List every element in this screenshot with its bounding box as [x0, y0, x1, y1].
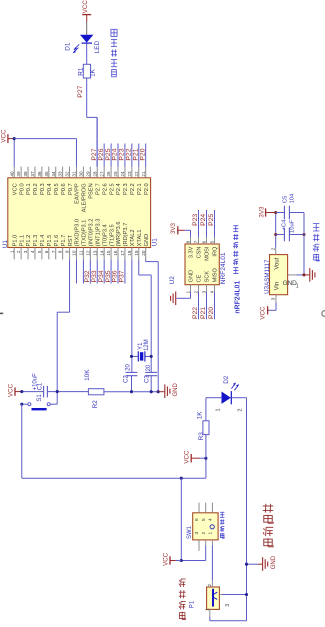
svg-text:LED: LED [94, 40, 101, 53]
ground (U2) [171, 292, 176, 306]
svg-text:P2.6: P2.6 [102, 183, 108, 195]
svg-text:5: 5 [37, 250, 42, 253]
svg-text:3: 3 [194, 531, 200, 534]
svg-text:20: 20 [125, 363, 131, 370]
capacitor C5 [276, 193, 304, 219]
wire SW1 to P1 pin2 [211, 546, 213, 581]
svg-text:CE: CE [197, 274, 203, 282]
connector P1 plug symbol [213, 589, 217, 607]
svg-text:R1: R1 [78, 67, 85, 76]
svg-text:5: 5 [210, 240, 215, 243]
wire C1 to R2 [47, 391, 88, 393]
svg-text:IRQ: IRQ [213, 246, 219, 257]
mcu top pin names VCC..P2.0 [12, 183, 149, 212]
svg-text:P2.7: P2.7 [95, 183, 101, 195]
sheet border tick [0, 312, 3, 314]
svg-text:P1: P1 [190, 600, 196, 608]
svg-text:P20: P20 [139, 148, 146, 160]
capacitor C4 [276, 219, 304, 241]
crystal Y1 [132, 339, 152, 361]
svg-text:P2.5: P2.5 [109, 183, 115, 195]
svg-text:VCC: VCC [82, 0, 89, 13]
svg-text:24: 24 [120, 171, 125, 177]
svg-text:P21: P21 [200, 307, 207, 319]
wire SW1 to VCC node [181, 546, 205, 561]
svg-text:RST: RST [68, 234, 74, 246]
svg-text:P25: P25 [208, 214, 215, 226]
junction S1 vcc node [20, 403, 23, 406]
junction c4 left [274, 233, 277, 236]
connector U2 pin stubs [191, 237, 215, 292]
svg-text:104: 104 [289, 193, 295, 203]
wire VCC to pin40 [13, 139, 15, 167]
svg-text:23: 23 [127, 171, 132, 177]
regulator U3 body [270, 255, 288, 295]
svg-text:36: 36 [37, 171, 42, 177]
junction sw1/vcc [180, 559, 183, 562]
wire U2 SCK [206, 292, 208, 320]
wire pin3 to VCC [268, 302, 276, 310]
regulator U3 designator [264, 285, 271, 293]
svg-text:11: 11 [79, 250, 84, 255]
svg-text:21: 21 [141, 171, 146, 177]
svg-text:1: 1 [296, 284, 299, 290]
svg-text:8: 8 [186, 240, 191, 243]
svg-text:6: 6 [194, 518, 200, 521]
wire R1 to P2.7 pin [87, 78, 97, 167]
LED D2 [215, 375, 243, 411]
svg-text:P1.7: P1.7 [61, 235, 67, 247]
svg-text:VCC: VCC [259, 306, 266, 320]
svg-text:32: 32 [65, 171, 70, 177]
junction C3/gnd [150, 390, 153, 393]
svg-text:12: 12 [85, 250, 90, 256]
label nRF24L01 wireless module [233, 226, 241, 314]
junction p1 pin3 [245, 593, 248, 596]
svg-text:GND: GND [144, 234, 150, 247]
svg-text:NRF24L01: NRF24L01 [220, 252, 227, 284]
mcu top pin stubs (pins 40..21) [14, 167, 145, 178]
wire U2 CE [198, 292, 200, 320]
wire vcc distribution [22, 404, 206, 478]
wire R3 to D2 [206, 398, 222, 421]
svg-text:14: 14 [99, 250, 104, 256]
svg-text:P27: P27 [77, 85, 84, 97]
svg-text:3: 3 [271, 297, 277, 300]
U3 pin1 stub [288, 274, 297, 276]
connector U2 pin numbers [186, 240, 215, 293]
connector P1 stubs [205, 581, 222, 617]
svg-text:37: 37 [30, 171, 35, 177]
wire U2 CSN [198, 210, 200, 237]
switch SW1 pin stubs [199, 503, 212, 551]
capacitor C2 [124, 363, 138, 391]
wire pin1 to rail [297, 274, 304, 276]
wire D2 to gnd rail [232, 398, 247, 621]
power flag VCC (D2 node) [184, 450, 206, 464]
wires P3.0..P3.7 port [76, 259, 124, 283]
svg-text:38: 38 [23, 171, 28, 177]
net labels P32..P37 [84, 270, 126, 282]
svg-text:U1: U1 [151, 238, 158, 247]
svg-text:1: 1 [205, 608, 211, 611]
label ASM1117 [264, 259, 271, 286]
svg-text:4: 4 [208, 518, 214, 521]
svg-text:1: 1 [186, 290, 191, 293]
switch SW1 designator [187, 525, 193, 539]
switch S1 (reset button) [22, 394, 57, 410]
svg-text:C1: C1 [38, 382, 44, 390]
svg-text:7: 7 [194, 240, 199, 243]
label 电源模块 [313, 224, 319, 261]
wire VCC to C1 [22, 391, 44, 393]
U3 pin2 stub [270, 247, 276, 254]
svg-text:2: 2 [201, 531, 207, 534]
svg-text:3: 3 [23, 250, 28, 253]
svg-text:P1.4: P1.4 [40, 235, 46, 247]
svg-text:MOSI: MOSI [205, 246, 211, 261]
svg-text:P0.4: P0.4 [47, 183, 53, 195]
svg-text:ASM1117: ASM1117 [264, 259, 271, 286]
svg-text:MISO: MISO [213, 267, 219, 282]
ground (U3) [304, 268, 315, 282]
label 电源电路 [263, 504, 274, 547]
wire P1 pin1 loop [210, 617, 247, 621]
svg-text:P20: P20 [208, 307, 215, 319]
svg-text:SCK: SCK [205, 271, 211, 283]
svg-text:P1.3: P1.3 [33, 235, 39, 247]
resistor R3 [197, 411, 209, 458]
svg-text:C3: C3 [145, 375, 151, 383]
net label P21 [200, 307, 207, 319]
svg-text:S1: S1 [37, 394, 43, 402]
ground (crystal) [158, 383, 179, 399]
svg-text:25: 25 [113, 171, 118, 177]
svg-text:P0.7: P0.7 [68, 183, 74, 195]
svg-text:R3: R3 [198, 432, 205, 441]
svg-text:(INT0)P3.2: (INT0)P3.2 [89, 219, 95, 247]
svg-text:Vin: Vin [275, 282, 281, 291]
svg-text:P22: P22 [192, 307, 199, 319]
ground (power circuit) [247, 555, 278, 571]
svg-text:VCC: VCC [0, 129, 7, 143]
power flag 3V3 (U2) [170, 222, 185, 234]
svg-text:+C4: +C4 [282, 219, 288, 231]
switch SW1 body [193, 513, 218, 540]
svg-text:13: 13 [92, 250, 97, 256]
svg-text:GND: GND [271, 555, 277, 569]
svg-text:XTAL1: XTAL1 [137, 229, 143, 246]
junction dist/sw1 [180, 477, 183, 480]
svg-text:R2: R2 [92, 400, 99, 409]
mcu U1 designator right [151, 238, 158, 247]
svg-text:8: 8 [58, 250, 63, 253]
svg-text:P0.1: P0.1 [26, 183, 32, 195]
svg-text:40: 40 [9, 171, 14, 177]
svg-text:1: 1 [208, 531, 214, 534]
mcu bottom pin numbers 1..20 [9, 250, 145, 256]
net label P27 (LED net) [77, 85, 84, 97]
wire VCC to D1 [86, 22, 88, 35]
power flag VCC (LED indicator) [82, 0, 91, 22]
svg-text:3.3V: 3.3V [189, 246, 195, 258]
svg-text:P1.0: P1.0 [12, 235, 18, 247]
svg-text:P37: P37 [119, 270, 126, 282]
svg-text:16: 16 [113, 250, 118, 256]
svg-text:29: 29 [85, 171, 90, 177]
svg-text:1: 1 [215, 409, 221, 412]
svg-text:2: 2 [16, 250, 21, 253]
svg-text:EA/VPP: EA/VPP [75, 183, 81, 204]
svg-text:GND: GND [189, 270, 195, 282]
svg-text:20: 20 [141, 250, 146, 256]
svg-text:XTAL2: XTAL2 [130, 229, 136, 246]
svg-text:P24: P24 [200, 214, 207, 226]
svg-text:P2.1: P2.1 [137, 183, 143, 195]
U3 pin3 stub [271, 295, 277, 303]
svg-text:P2.0: P2.0 [144, 183, 150, 195]
svg-text:(INT1)P3.3: (INT1)P3.3 [95, 219, 101, 247]
U3 pin names [275, 257, 299, 290]
mcu U1 designator left [2, 240, 9, 249]
wires P2.7..P2.0 port [97, 117, 145, 166]
resistor R1 [78, 64, 97, 78]
svg-text:(T0)P3.4: (T0)P3.4 [102, 224, 108, 246]
svg-text:(T1)P3.5: (T1)P3.5 [109, 224, 115, 246]
wire XTAL1 [139, 259, 151, 372]
net label P20 [208, 307, 215, 319]
svg-text:4: 4 [210, 290, 215, 293]
svg-text:P2.2: P2.2 [130, 183, 136, 195]
svg-text:31: 31 [72, 171, 77, 177]
svg-text:35: 35 [44, 171, 49, 177]
junction gnd branch [245, 563, 248, 566]
connector U2 pin names [189, 246, 219, 282]
svg-text:C5: C5 [283, 196, 289, 203]
svg-text:19: 19 [134, 250, 139, 256]
svg-text:CSN: CSN [197, 247, 203, 259]
svg-text:6: 6 [44, 250, 49, 253]
power flag VCC (U3) [259, 306, 268, 320]
wire gnd rail (U3) [303, 213, 305, 275]
svg-text:15: 15 [106, 250, 111, 256]
switch SW1 pin numbers [194, 518, 214, 534]
svg-text:P2.3: P2.3 [123, 183, 129, 195]
svg-text:P0.5: P0.5 [54, 183, 60, 195]
capacitor C1 [33, 373, 48, 398]
svg-text:4: 4 [30, 250, 35, 253]
svg-text:(WR)P3.6: (WR)P3.6 [116, 221, 122, 246]
net labels P27..P20 [91, 148, 146, 160]
junction xtal1/crystal [150, 355, 153, 358]
svg-text:(RD)P3.7: (RD)P3.7 [123, 223, 129, 247]
label NRF24L01 [220, 252, 227, 284]
wire 3V3 to U2 pin8 [185, 230, 191, 237]
svg-text:D2: D2 [223, 375, 230, 384]
power flag VCC (mcu) [0, 129, 14, 143]
connector P1 body [207, 587, 220, 609]
mcu top pin numbers 40..21 [9, 171, 145, 177]
label 电源输入 [179, 579, 186, 620]
junction gnd rail [302, 273, 305, 276]
net label P23 [192, 214, 199, 226]
svg-text:10K: 10K [84, 369, 91, 381]
junction VCC/pin40 [13, 137, 16, 140]
svg-text:2: 2 [238, 409, 244, 412]
svg-text:2: 2 [194, 290, 199, 293]
junction d2 node [204, 457, 207, 460]
wire U2 MISO [214, 292, 216, 320]
svg-text:P1.6: P1.6 [54, 235, 60, 247]
power flag VCC (reset) [7, 383, 21, 397]
svg-text:26: 26 [106, 171, 111, 177]
svg-text:3: 3 [202, 290, 207, 293]
mcu bottom pin names P1.0..GND [12, 219, 149, 247]
svg-text:Vout: Vout [275, 257, 281, 269]
svg-text:33: 33 [58, 171, 63, 177]
svg-text:ALE/PROG: ALE/PROG [82, 183, 88, 212]
svg-text:5: 5 [201, 518, 207, 521]
svg-text:(RXD)P3.0: (RXD)P3.0 [75, 219, 81, 247]
mcu U1 body [8, 178, 151, 248]
svg-text:1K: 1K [90, 68, 97, 77]
svg-text:U1: U1 [2, 240, 9, 249]
wire P1 pin3 to gnd [222, 595, 247, 607]
connector U2 designator [169, 276, 176, 285]
junction 3v3 node [274, 211, 277, 214]
svg-text:1K: 1K [197, 411, 204, 420]
wire U2 MOSI [206, 210, 208, 237]
power flag 3V3 (U3) [258, 206, 275, 218]
svg-text:9: 9 [65, 250, 70, 253]
svg-text:nRF24L01: nRF24L01 [234, 280, 241, 313]
svg-text:P0.2: P0.2 [33, 183, 39, 195]
svg-text:28: 28 [92, 171, 97, 177]
svg-text:P2.4: P2.4 [116, 183, 122, 195]
svg-text:34: 34 [51, 171, 56, 177]
svg-text:D1: D1 [64, 42, 71, 51]
junction c4 right [302, 233, 305, 236]
junction pin20 gnd row [157, 390, 160, 393]
net label P25 [208, 214, 215, 226]
junction xtal2/crystal [130, 355, 133, 358]
svg-text:P23: P23 [192, 214, 199, 226]
wire XTAL2 [131, 259, 133, 372]
svg-text:P1.1: P1.1 [19, 235, 25, 247]
svg-text:SW1: SW1 [187, 525, 193, 539]
svg-text:P0.0: P0.0 [19, 183, 25, 195]
wire mcu GND pin [146, 259, 159, 391]
wire RST net [57, 259, 69, 404]
label 电源开关 [220, 512, 224, 538]
svg-text:3V3: 3V3 [258, 206, 265, 218]
wire D1 to R1 [86, 43, 88, 64]
svg-text:P0.6: P0.6 [61, 183, 67, 195]
wire Vout rail [275, 213, 277, 248]
label 信号指示灯 [111, 29, 117, 77]
svg-text:P1.5: P1.5 [47, 235, 53, 247]
svg-text:GND: GND [173, 383, 179, 397]
wire VCC to EA/VPP [14, 139, 76, 167]
svg-text:3: 3 [225, 604, 231, 607]
svg-text:VCC: VCC [162, 552, 169, 566]
LED D1 [64, 35, 101, 54]
svg-text:VCC: VCC [184, 450, 191, 464]
wire U2 IRQ [214, 210, 216, 237]
svg-text:2: 2 [270, 247, 276, 250]
svg-text:12M: 12M [144, 339, 150, 351]
svg-text:27: 27 [99, 171, 104, 177]
edge mark C [322, 311, 325, 317]
svg-text:P1.2: P1.2 [26, 235, 32, 247]
svg-text:2: 2 [207, 584, 213, 587]
svg-text:39: 39 [16, 171, 21, 177]
junction RST node [56, 390, 59, 393]
svg-text:P0.3: P0.3 [40, 183, 46, 195]
junction reset vcc node [20, 390, 23, 393]
svg-text:30: 30 [79, 171, 84, 177]
svg-text:(TXD)P3.1: (TXD)P3.1 [82, 220, 88, 247]
mcu bottom pin stubs (pins 1..20) [14, 248, 145, 260]
svg-text:22: 22 [134, 171, 139, 177]
wire U2 pin1 to ground [177, 292, 191, 299]
svg-text:6: 6 [202, 240, 207, 243]
wire R2 to GND [104, 391, 158, 393]
svg-text:3V3: 3V3 [170, 222, 177, 234]
junction C2/gnd [130, 390, 133, 393]
svg-text:18: 18 [127, 250, 132, 256]
net label P24 [200, 214, 207, 226]
power flag VCC (bottom) [162, 552, 181, 566]
connector P1 designator [190, 600, 196, 608]
svg-text:VCC: VCC [12, 183, 18, 195]
svg-text:U2: U2 [169, 276, 176, 285]
svg-text:7: 7 [51, 250, 56, 253]
resistor R2 [84, 369, 104, 409]
svg-text:VCC: VCC [7, 383, 14, 397]
svg-text:1: 1 [9, 250, 14, 253]
capacitor C3 [145, 364, 158, 392]
net label P22 [192, 307, 199, 319]
svg-text:17: 17 [120, 250, 125, 256]
connector U2 body [185, 244, 219, 285]
wire to SW1 node [180, 478, 182, 560]
svg-text:C2: C2 [124, 375, 130, 383]
svg-text:10: 10 [72, 250, 77, 256]
svg-text:20: 20 [146, 364, 152, 371]
svg-text:10uF: 10uF [289, 219, 295, 233]
svg-text:PSEN: PSEN [89, 183, 95, 199]
